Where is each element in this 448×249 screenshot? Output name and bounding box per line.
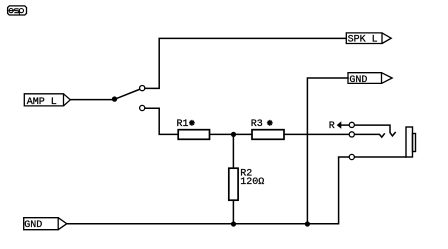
svg-text:GND: GND — [349, 75, 367, 86]
svg-text:GND: GND — [24, 220, 42, 231]
svg-text:AMP L: AMP L — [27, 97, 57, 108]
svg-text:R: R — [329, 121, 335, 132]
svg-text:R3: R3 — [251, 119, 263, 130]
svg-text:120Ω: 120Ω — [240, 177, 264, 188]
svg-text:R1: R1 — [177, 119, 189, 130]
svg-text:SPK L: SPK L — [348, 35, 378, 46]
